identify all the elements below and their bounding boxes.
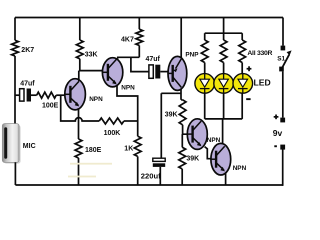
svg-text:MIC: MIC — [23, 143, 36, 150]
resistor 100E — [37, 92, 57, 98]
transistor Q5 — [211, 143, 231, 175]
svg-text:33K: 33K — [85, 51, 98, 58]
resistor R 330R #2 — [223, 33, 225, 40]
LED cathode leads — [204, 93, 206, 119]
battery 9v — [273, 115, 285, 150]
resistor 33K — [79, 18, 81, 41]
faint artifact marks — [70, 163, 112, 165]
svg-text:47uf: 47uf — [146, 56, 161, 63]
capacitor C1 47uf — [20, 80, 36, 101]
wire drop to coupling cap C2 — [131, 57, 149, 71]
resistor 100K — [99, 118, 124, 124]
svg-text:NPN: NPN — [207, 137, 221, 144]
resistor bus — [205, 32, 243, 34]
transistor Q2 — [102, 58, 122, 87]
svg-text:LED: LED — [254, 77, 271, 87]
svg-text:100E: 100E — [42, 102, 59, 109]
wire 33K to Q2 base node — [80, 59, 103, 71]
LED D2 — [214, 74, 234, 94]
wire to coupling cap — [15, 94, 20, 96]
LED D3 — [233, 74, 253, 94]
switch S1 — [277, 46, 291, 72]
wire MIC to ground rail — [14, 162, 16, 185]
svg-text:9v: 9v — [273, 128, 283, 138]
wire 100E to Q1 base — [56, 94, 65, 96]
svg-text:All 330R: All 330R — [247, 50, 272, 57]
resistor 1K — [134, 136, 141, 156]
left rail (top segment) — [14, 18, 16, 41]
svg-text:39K: 39K — [165, 112, 178, 119]
microphone MIC — [2, 124, 35, 164]
svg-text:39K: 39K — [186, 155, 199, 162]
resistor R 330R #3 — [241, 33, 243, 40]
resistor 39K (upper) — [181, 99, 183, 101]
wire to Q4 base, and down to lower 39K — [183, 125, 188, 134]
wire left rail to MIC — [14, 56, 16, 125]
resistor 2K7 — [12, 40, 19, 56]
Q2 collector wire to 4K7 — [118, 57, 140, 58]
svg-text:1K: 1K — [124, 145, 133, 152]
svg-text:PNP: PNP — [185, 52, 199, 59]
right rail top — [282, 18, 284, 46]
wire Q3 collector to 220uf branch — [161, 92, 181, 94]
transistor Q1 — [65, 79, 86, 110]
capacitor 220uf — [141, 158, 165, 180]
capacitor C2 47uf — [146, 56, 161, 79]
180E to ground — [78, 158, 80, 185]
top rail V+ — [15, 17, 283, 19]
svg-text:4K7: 4K7 — [121, 36, 134, 43]
resistor 39K (lower) — [179, 147, 186, 169]
svg-text:220uf: 220uf — [141, 171, 161, 180]
LED D1 — [195, 74, 215, 94]
resistor 180E — [75, 139, 82, 158]
LED plus label — [247, 68, 252, 70]
Q3 emitter lead to V+ — [180, 18, 182, 58]
right rail bottom — [282, 149, 284, 185]
svg-text:S1: S1 — [277, 55, 285, 62]
LED cathode bus — [205, 118, 243, 120]
svg-text:NPN: NPN — [89, 96, 103, 103]
Q1 collector lead — [78, 71, 80, 81]
wire C2 to Q3 base — [160, 71, 168, 73]
Q3 collector lead — [180, 90, 182, 100]
svg-text:100K: 100K — [104, 130, 121, 137]
feedback wire from base node down and over emitter (hump) — [61, 95, 99, 121]
Q4 emitter to Q5 base — [205, 147, 212, 159]
svg-text:NPN: NPN — [233, 165, 247, 172]
Q2 emitter path to 1K — [117, 86, 138, 137]
wire cap to 100E — [31, 94, 37, 96]
ground rail (bottom) — [15, 184, 283, 186]
Q5 collector lead — [222, 119, 224, 144]
resistor 4K7 — [138, 18, 140, 30]
Q1 emitter lead — [78, 108, 80, 139]
svg-text:47uf: 47uf — [20, 80, 35, 87]
svg-text:180E: 180E — [85, 147, 102, 154]
Q5 emitter lead to ground — [225, 174, 227, 186]
transistor Q4 — [187, 119, 207, 150]
transistor Q3 (PNP) — [168, 56, 187, 90]
svg-text:NPN: NPN — [121, 84, 135, 91]
right rail middle — [282, 71, 284, 117]
LED minus label — [246, 98, 250, 100]
wire 100K to Q2 emitter line — [124, 120, 138, 122]
svg-text:2K7: 2K7 — [21, 47, 34, 54]
LED resistor bank stub — [223, 18, 225, 34]
resistor R 330R #1 — [204, 33, 206, 40]
